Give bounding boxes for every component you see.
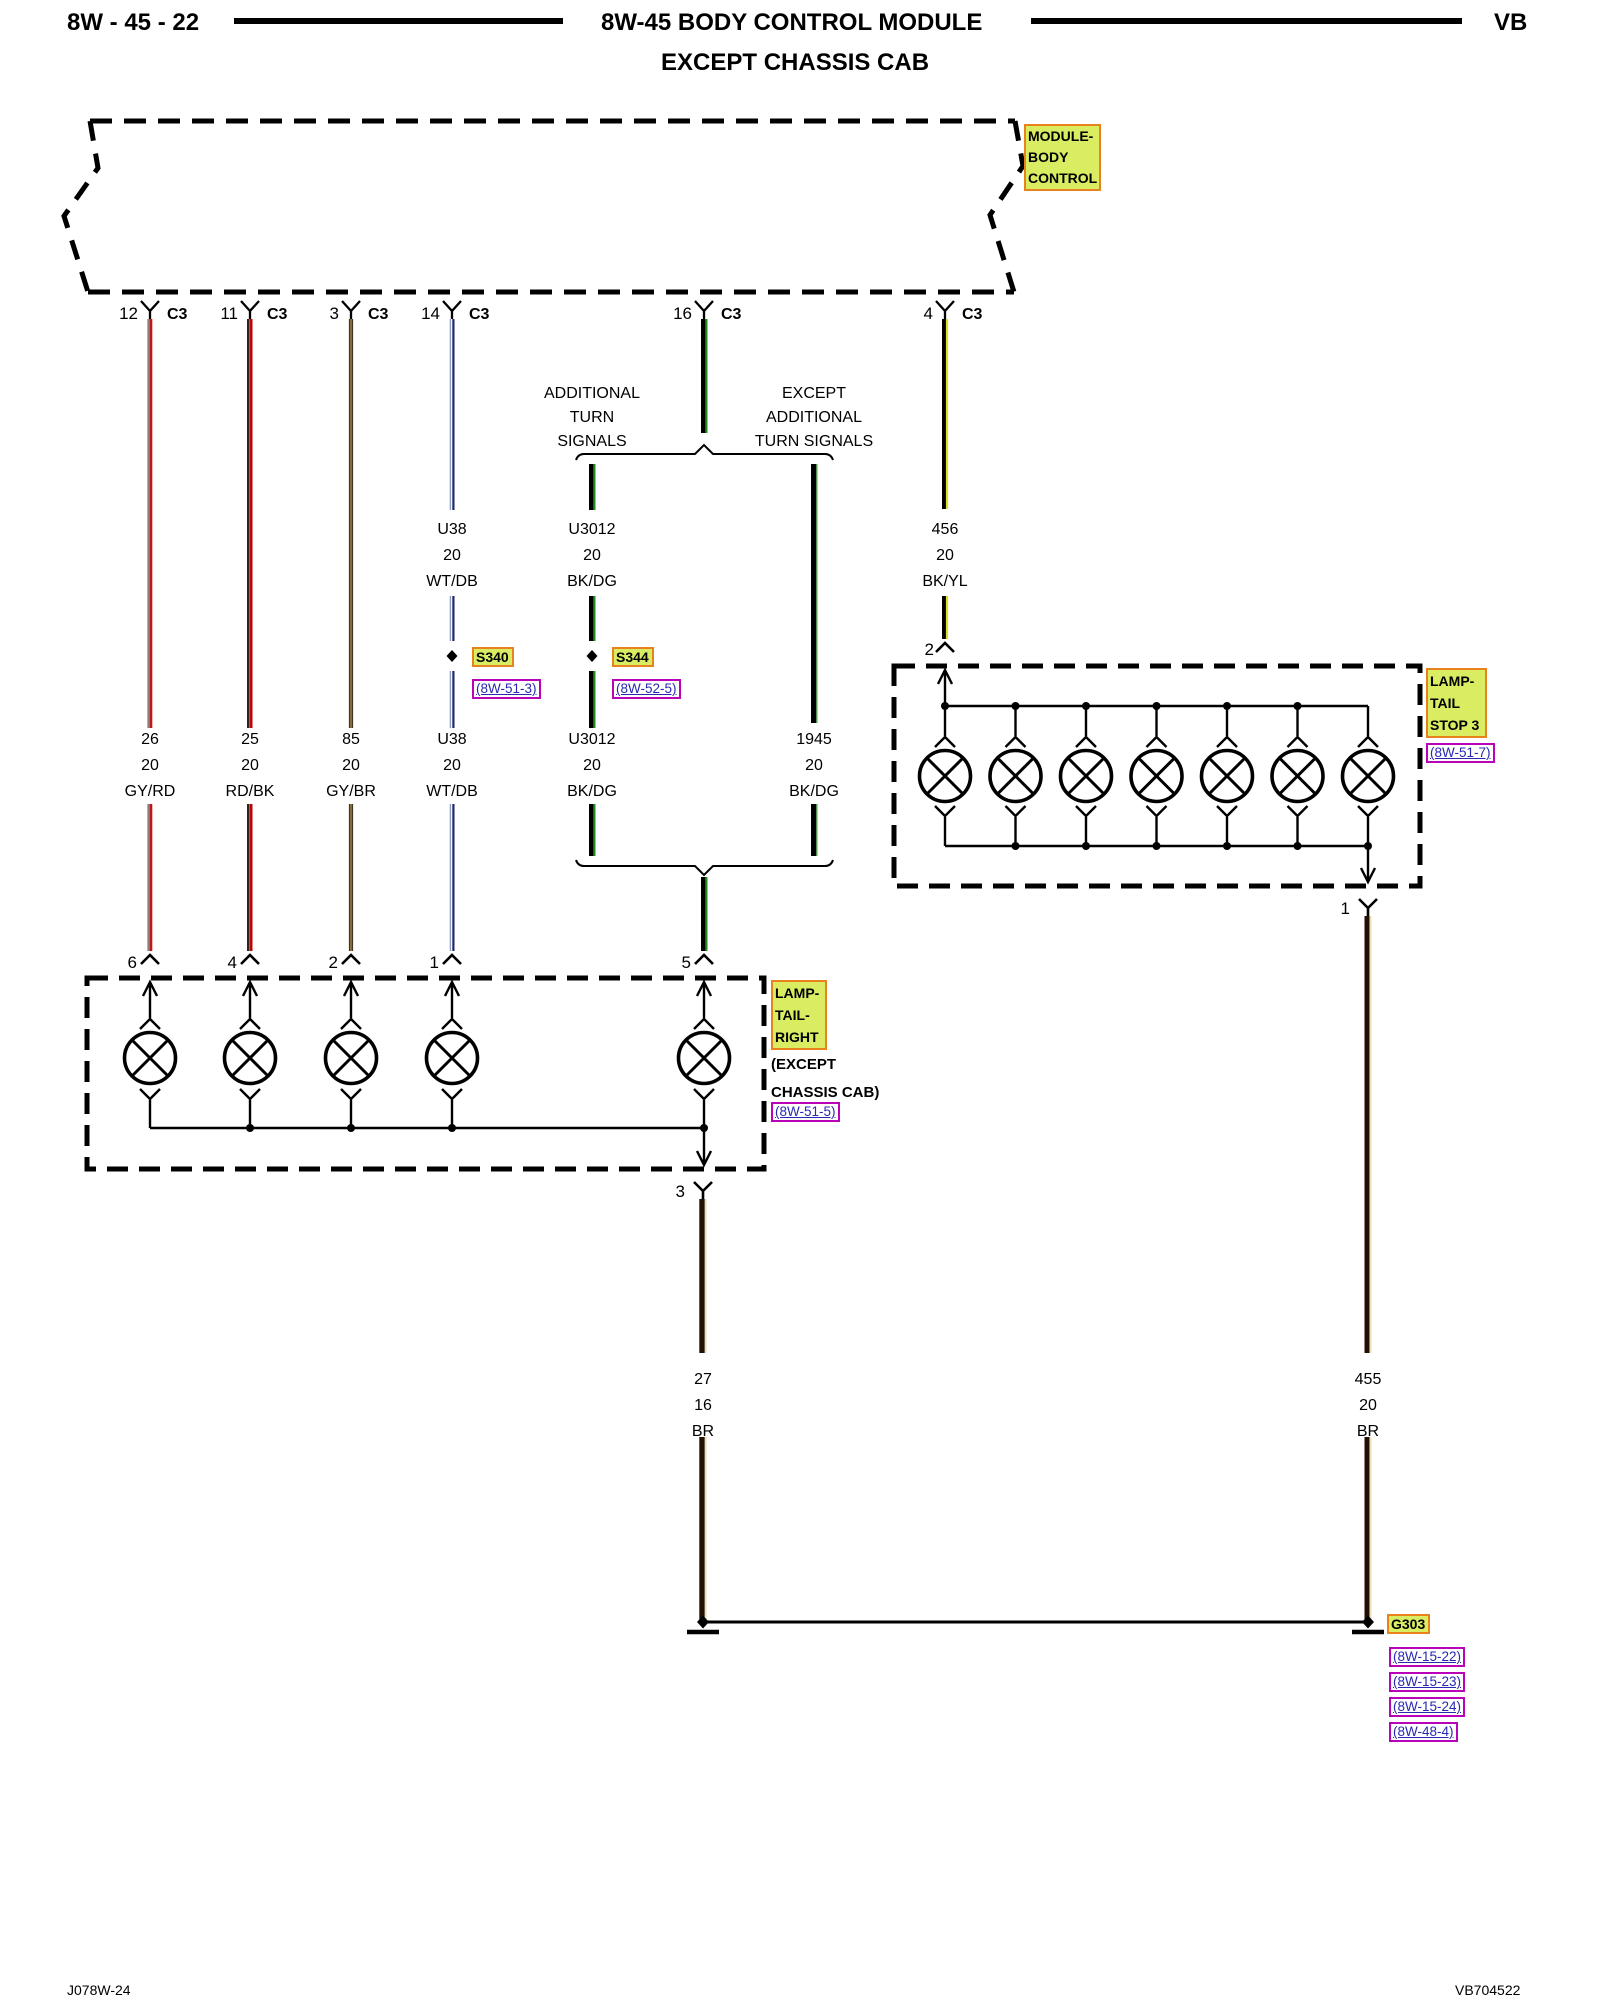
splice label S344: [612, 647, 654, 667]
wire U38 WT/DB segment d: [450, 804, 453, 951]
wire U38 WT/DB segment b: [450, 596, 453, 641]
wire label 1945 20 BK/DG: [734, 727, 894, 805]
wire label U38 20 WT/DB lower: [372, 727, 532, 805]
brace split junction: [576, 445, 833, 460]
wire 27 BR lower segment: [702, 1437, 706, 1622]
wire 25 RD/BK upper segment: [248, 319, 251, 728]
right tail lamp bulb 4: [427, 1019, 478, 1128]
wire label 85 20 GY/BR: [271, 727, 431, 805]
stop lamp bulb 1: [920, 706, 971, 846]
splice link 8W-52-5: [612, 679, 681, 699]
wire 1945 BK/DG upper segment: [814, 464, 817, 723]
pin 4 number right tail lamp: [197, 953, 237, 973]
arrow out of right tail lamp box to pin 3: [697, 1128, 711, 1165]
stop lamp bulb 7: [1343, 706, 1394, 846]
wire label U3012 20 BK/DG upper: [512, 517, 672, 595]
footer left: [67, 1982, 131, 1998]
label LAMP-TAIL STOP 3: [1426, 668, 1487, 738]
splice S340 diamond: [447, 650, 458, 662]
label MODULE-BODY CONTROL: [1024, 124, 1101, 191]
stop lamp bulb 4: [1131, 706, 1182, 846]
pin 2 connector of tail stop lamp: [936, 643, 954, 652]
pin 14 connector C3: [443, 301, 461, 319]
stop lamp bulb 3: [1061, 706, 1112, 846]
stop lamp top bus wire: [945, 705, 1368, 708]
right tail lamp bulb 2: [225, 1019, 276, 1128]
pin 2 number right tail lamp: [298, 953, 338, 973]
pin 1 connector of right tail lamp: [443, 955, 461, 964]
wire 455 BR lower segment: [1367, 1437, 1371, 1622]
pin 4 number: [893, 304, 933, 324]
pin 16 C3 label: [721, 306, 741, 324]
arrow into right tail lamp box pin 5: [697, 982, 711, 1018]
arrow into right tail lamp box pin 1: [445, 982, 459, 1018]
wire 455 BR upper segment: [1367, 916, 1371, 1353]
arrow into right tail lamp box pin 6: [143, 982, 157, 1018]
ground splice diamond right: [1362, 1616, 1374, 1629]
arrow out of stop lamp box to pin 1: [1361, 846, 1375, 882]
pin 14 C3 label: [469, 306, 489, 324]
pin 4 connector of right tail lamp: [241, 955, 259, 964]
stop lamp bulb 6: [1272, 706, 1323, 846]
splice S344 diamond: [587, 650, 598, 662]
wire 1945 BK/DG lower segment: [814, 804, 817, 856]
wire 85 GY/BR lower segment: [349, 804, 353, 951]
note EXCEPT CHASSIS CAB: [771, 1051, 879, 1107]
pin 3 number: [299, 304, 339, 324]
wire 26 GY/RD upper segment: [148, 319, 151, 728]
link 8W-15-23: [1389, 1672, 1465, 1692]
wire label 26 20 GY/RD: [70, 727, 230, 805]
pin 11 C3 label: [267, 306, 287, 324]
pin 5 number right tail lamp: [651, 953, 691, 973]
pin 2 number stop lamp: [894, 640, 934, 660]
label LAMP-TAIL-RIGHT: [771, 980, 827, 1050]
wire 456 BK/YL upper segment: [944, 319, 947, 509]
wire 456 BK/YL lower segment: [944, 596, 947, 639]
pin 11 connector C3: [241, 301, 259, 319]
label G303: [1387, 1614, 1430, 1634]
pin 3 number right tail lamp: [645, 1182, 685, 1202]
module U1 BODY CONTROL MODULE dashed outline: [64, 121, 1023, 292]
splice link 8W-51-3: [472, 679, 541, 699]
wire U38 WT/DB segment c: [450, 671, 453, 728]
pin 14 number: [400, 304, 440, 324]
brace merge junction: [576, 860, 833, 875]
ground bus wire G303: [703, 1621, 1368, 1624]
wire label 25 20 RD/BK: [170, 727, 330, 805]
wire label U3012 20 BK/DG lower: [512, 727, 672, 805]
right tail lamp bulb 3: [326, 1019, 377, 1128]
pin 16 number: [652, 304, 692, 324]
link 8W-15-22: [1389, 1647, 1465, 1667]
stop lamp bottom bus wire: [945, 845, 1368, 848]
wire label 455 20 BR: [1288, 1367, 1448, 1445]
pin 16 connector C3: [695, 301, 713, 319]
wire label 27 16 BR: [623, 1367, 783, 1445]
pin 6 connector of right tail lamp: [141, 955, 159, 964]
right tail lamp bulb 5: [679, 1019, 730, 1128]
ground symbol right: [1352, 1630, 1384, 1635]
header rule left: [234, 18, 563, 24]
right tail lamp bulb 1: [125, 1019, 176, 1128]
wire U3012 BK/DG branch segment d: [591, 804, 594, 856]
pin 6 number right tail lamp: [97, 953, 137, 973]
link 8W-51-5: [771, 1102, 840, 1122]
wire 27 BR upper segment: [702, 1199, 706, 1353]
arrow into right tail lamp box pin 2: [344, 982, 358, 1018]
arrow into stop lamp box at pin 2: [938, 670, 952, 706]
header rule right: [1031, 18, 1462, 24]
pin 1 number stop lamp: [1310, 899, 1350, 919]
wire U3012 BK/DG branch segment c: [591, 671, 594, 728]
wire U38 WT/DB segment a: [450, 319, 453, 510]
link 8W-15-24: [1389, 1697, 1465, 1717]
wire label U38 20 WT/DB upper: [372, 517, 532, 595]
wire 26 GY/RD lower segment: [148, 804, 151, 951]
splice label S340: [472, 647, 514, 667]
note EXCEPT ADDITIONAL TURN SIGNALS: [734, 382, 894, 454]
pin 5 connector of right tail lamp: [695, 955, 713, 964]
note ADDITIONAL TURN SIGNALS: [512, 382, 672, 454]
wire 85 GY/BR upper segment: [349, 319, 353, 728]
wire label 456 20 BK/YL: [865, 517, 1025, 595]
pin 12 C3 label: [167, 306, 187, 324]
arrow into right tail lamp box pin 4: [243, 982, 257, 1018]
pin 1 number right tail lamp: [399, 953, 439, 973]
wire U3012 BK/DG branch segment b: [591, 596, 594, 641]
pin 12 connector C3: [141, 301, 159, 319]
stop lamp bus junction dots: [941, 702, 1372, 850]
footer right: [1455, 1982, 1520, 1998]
link 8W-51-7: [1426, 743, 1495, 763]
lamp-tail stop 3 dashed box: [894, 666, 1420, 886]
wire U3012 BK/DG pin16 stub: [703, 319, 706, 433]
lamp-tail-right dashed box: [87, 978, 764, 1169]
pin 3 C3 label: [368, 306, 388, 324]
pin 4 connector C3: [936, 301, 954, 319]
wire U3012 BK/DG merged segment to pin 5: [703, 877, 706, 951]
wire 25 RD/BK lower segment: [248, 804, 251, 951]
pin 4 C3 label: [962, 306, 982, 324]
pin 1 connector of tail stop lamp: [1359, 899, 1377, 916]
PAGE HEADER: [67, 9, 199, 37]
stop lamp bulb 2: [990, 706, 1041, 846]
pin 3 connector C3: [342, 301, 360, 319]
pin 3 connector of right tail lamp: [694, 1182, 712, 1199]
stop lamp bulb 5: [1202, 706, 1253, 846]
wire U3012 BK/DG branch segment a: [591, 464, 594, 510]
right tail lamp bus junction dots: [246, 1124, 708, 1132]
link 8W-48-4: [1389, 1722, 1458, 1742]
pin 12 number: [98, 304, 138, 324]
right tail lamp bottom bus wire: [150, 1127, 704, 1130]
ground symbol left: [687, 1630, 719, 1635]
pin 11 number: [198, 304, 238, 324]
ground splice diamond left: [697, 1616, 709, 1629]
pin 2 connector of right tail lamp: [342, 955, 360, 964]
